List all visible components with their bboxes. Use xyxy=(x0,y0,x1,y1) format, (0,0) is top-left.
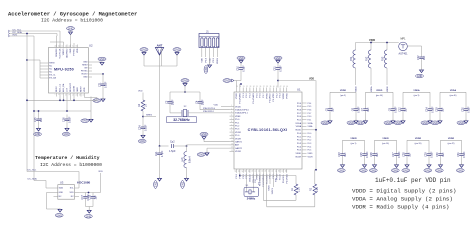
svg-text:1uF: 1uF xyxy=(442,152,445,157)
pin P0.5/SDA U1 xyxy=(286,169,288,173)
wire xyxy=(221,106,230,108)
svg-text:1.5pF: 1.5pF xyxy=(169,150,176,153)
wire xyxy=(26,34,28,172)
pin U2 right xyxy=(88,67,92,69)
wire xyxy=(186,146,188,152)
svg-text:FB3: FB3 xyxy=(382,56,385,61)
svg-text:GND: GND xyxy=(385,122,391,125)
capacitor C4 xyxy=(195,99,204,106)
wire xyxy=(85,202,87,206)
svg-text:P3.0/TDO: P3.0/TDO xyxy=(270,93,272,103)
pin U2 left xyxy=(45,77,49,79)
svg-text:38: 38 xyxy=(266,86,268,88)
label 32.768kHz xyxy=(167,117,197,123)
svg-text:2.2K: 2.2K xyxy=(316,187,319,192)
svg-text:GND: GND xyxy=(68,27,74,30)
svg-text:INT1: INT1 xyxy=(13,35,19,37)
wire xyxy=(240,74,242,80)
wire xyxy=(392,114,394,121)
svg-text:GND: GND xyxy=(174,49,180,52)
svg-text:FB2: FB2 xyxy=(366,56,369,61)
junction xyxy=(239,175,241,177)
svg-text:23: 23 xyxy=(59,45,61,47)
junction xyxy=(142,116,144,118)
wire xyxy=(402,92,404,105)
wire xyxy=(70,97,72,101)
svg-text:CYBL10161-56LQXI: CYBL10161-56LQXI xyxy=(248,128,288,132)
wire xyxy=(27,171,79,173)
svg-text:VSSD: VSSD xyxy=(236,93,238,99)
pin P3.5 U1 xyxy=(302,105,307,107)
wire xyxy=(234,80,237,82)
svg-text:VDDD: VDDD xyxy=(376,90,383,92)
svg-text:VDDR: VDDR xyxy=(235,138,241,140)
svg-text:VSSD: VSSD xyxy=(266,93,268,99)
crystal X1 xyxy=(244,185,259,200)
net VDDR decoupling group xyxy=(441,138,462,145)
wire xyxy=(374,140,376,150)
capacitor C23 xyxy=(338,150,347,159)
svg-text:VDDR: VDDR xyxy=(448,138,455,140)
junction xyxy=(73,99,75,101)
ground xyxy=(431,120,442,125)
svg-text:GND: GND xyxy=(458,169,464,172)
ground xyxy=(85,209,93,218)
svg-text:0.1uF: 0.1uF xyxy=(280,65,283,72)
svg-text:I2C_SCL: I2C_SCL xyxy=(28,169,38,171)
capacitor C21 xyxy=(98,74,107,96)
capacitor C30 xyxy=(436,150,445,159)
pin VSSD U1 xyxy=(302,152,307,154)
svg-text:GND: GND xyxy=(140,140,146,143)
antenna ANT xyxy=(155,43,163,55)
svg-text:VDDR: VDDR xyxy=(350,138,357,140)
ground xyxy=(232,79,235,82)
capacitor C24 xyxy=(138,124,147,133)
pin GANT1 U1 xyxy=(230,141,235,143)
svg-text:GND: GND xyxy=(57,214,63,217)
svg-text:VDD: VDD xyxy=(369,38,376,42)
ground xyxy=(173,48,181,55)
wire xyxy=(63,42,65,45)
svg-text:1uF: 1uF xyxy=(367,107,370,112)
mpu-9250 U2 xyxy=(49,44,94,94)
svg-text:Accelerometer / Gyroscope / Ma: Accelerometer / Gyroscope / Magnetometer xyxy=(8,12,137,18)
svg-text:0.1uF: 0.1uF xyxy=(145,124,148,131)
wire xyxy=(439,92,441,105)
wire VDD rail xyxy=(278,80,316,82)
svg-text:XTAL32I/P6.1: XTAL32I/P6.1 xyxy=(203,110,214,113)
svg-text:SWDCK: SWDCK xyxy=(272,187,274,194)
svg-text:35: 35 xyxy=(256,86,258,88)
ground xyxy=(138,134,146,143)
junction xyxy=(59,99,61,101)
svg-text:C29: C29 xyxy=(424,152,427,157)
pin P0.5 U1 xyxy=(302,149,307,151)
svg-text:0.1uF: 0.1uF xyxy=(468,106,471,113)
svg-text:GND: GND xyxy=(395,122,401,125)
pin P0.4/SCL U1 xyxy=(282,169,284,173)
pin GND U3 xyxy=(54,192,58,194)
wire xyxy=(92,61,102,63)
capacitor C14 xyxy=(425,105,434,114)
svg-text:0.1uF: 0.1uF xyxy=(395,106,398,113)
svg-text:P0.3: P0.3 xyxy=(308,143,312,145)
junction xyxy=(38,110,40,112)
svg-text:GND: GND xyxy=(348,122,354,125)
svg-text:ANT: ANT xyxy=(235,144,240,147)
svg-text:Cp2: Cp2 xyxy=(170,140,175,143)
pin VSSD U1 xyxy=(236,88,238,93)
svg-text:GND: GND xyxy=(35,133,41,136)
wire xyxy=(173,145,186,147)
wire xyxy=(38,111,40,115)
wire xyxy=(56,34,58,37)
ground xyxy=(62,127,70,136)
svg-text:(pin 16): (pin 16) xyxy=(382,143,389,145)
svg-text:10: 10 xyxy=(231,134,233,136)
pin nCS U2 xyxy=(66,93,68,97)
capacitor C7 xyxy=(361,105,370,114)
svg-text:13: 13 xyxy=(231,144,233,146)
svg-text:10: 10 xyxy=(66,94,68,96)
wire xyxy=(392,92,394,105)
svg-text:(pin 26): (pin 26) xyxy=(415,143,422,145)
wire xyxy=(406,140,408,150)
svg-text:42: 42 xyxy=(280,86,282,88)
svg-text:VDD: VDD xyxy=(69,192,74,194)
svg-text:GND: GND xyxy=(182,80,188,83)
svg-text:CLKIN: CLKIN xyxy=(74,85,76,92)
svg-text:C25: C25 xyxy=(360,152,363,157)
capacitor C25 xyxy=(360,150,369,159)
ground xyxy=(424,164,432,173)
svg-text:(pin 44): (pin 44) xyxy=(376,95,383,97)
svg-text:1uF: 1uF xyxy=(344,152,347,157)
junction xyxy=(186,145,188,147)
svg-text:C22: C22 xyxy=(417,55,420,60)
wire xyxy=(276,173,278,177)
svg-text:XTAL32O/P6.0: XTAL32O/P6.0 xyxy=(235,108,250,111)
junction xyxy=(159,145,161,147)
capacitor C27 xyxy=(392,150,401,159)
pin P3.7 U1 xyxy=(302,112,307,114)
svg-text:53: 53 xyxy=(262,170,264,172)
wire xyxy=(396,140,398,150)
svg-text:GND: GND xyxy=(358,122,364,125)
svg-text:RESV: RESV xyxy=(82,65,88,67)
wire xyxy=(246,173,248,188)
pin VDDD U1 xyxy=(282,88,284,93)
pin VDDR U1 xyxy=(302,156,307,158)
svg-text:GND: GND xyxy=(361,169,367,172)
pin AUX_DA U2 xyxy=(63,93,65,97)
svg-text:(pin 42): (pin 42) xyxy=(448,143,455,145)
wire xyxy=(329,92,331,105)
capacitor C29 xyxy=(424,150,433,159)
ground xyxy=(274,56,282,63)
wire xyxy=(38,125,40,128)
svg-text:1uF: 1uF xyxy=(40,117,43,122)
svg-text:30pF: 30pF xyxy=(172,99,175,105)
pin U2 right xyxy=(88,61,92,63)
svg-text:AUX_CL: AUX_CL xyxy=(59,83,62,92)
pin U2 left xyxy=(45,71,49,73)
wire xyxy=(209,57,211,65)
svg-text:VDDD: VDDD xyxy=(235,106,241,108)
net VDDA decoupling group xyxy=(440,89,466,97)
wire xyxy=(66,97,68,112)
net VDDR decoupling group xyxy=(407,138,429,145)
pin VREF U1 xyxy=(230,115,235,117)
svg-text:AUX_DA: AUX_DA xyxy=(62,83,65,92)
wire xyxy=(314,170,316,184)
svg-text:1uF: 1uF xyxy=(332,107,335,112)
pin GND U2 xyxy=(70,45,72,48)
pin VDDD U1 xyxy=(302,129,307,131)
junction xyxy=(26,99,28,101)
svg-text:P3.6: P3.6 xyxy=(308,109,312,111)
pin P0.4 J1 xyxy=(205,48,207,58)
svg-text:1uF: 1uF xyxy=(409,152,412,157)
svg-text:VSSD: VSSD xyxy=(286,93,288,99)
pin P3.4 U1 xyxy=(302,102,307,104)
pin P0.0 U1 xyxy=(302,132,307,134)
wire xyxy=(307,129,317,131)
pin XTAL32I/P6.1 U1 xyxy=(230,112,235,114)
wire xyxy=(364,159,366,165)
wire xyxy=(199,106,201,110)
capacitor C15 xyxy=(34,115,43,126)
wire xyxy=(170,91,200,93)
svg-text:P3.7: P3.7 xyxy=(308,113,312,115)
pin VCCD U1 xyxy=(279,169,281,173)
ground xyxy=(321,120,332,125)
wire xyxy=(66,125,68,128)
svg-text:GND: GND xyxy=(83,62,88,64)
svg-text:C28: C28 xyxy=(402,152,405,157)
capacitor Cp1 xyxy=(155,146,164,162)
pin P4.1 U1 xyxy=(302,119,307,121)
junction xyxy=(386,42,388,44)
junction xyxy=(240,83,242,85)
capacitor C12 xyxy=(398,105,407,114)
wire xyxy=(169,92,171,99)
net VDDD decoupling group xyxy=(330,90,356,97)
svg-text:0.1uF: 0.1uF xyxy=(432,106,435,113)
svg-text:C31: C31 xyxy=(457,152,460,157)
pin RESV U2 xyxy=(56,93,58,97)
pin SCL/SCLK U2 xyxy=(59,45,61,48)
wire xyxy=(374,159,376,165)
svg-text:GND: GND xyxy=(403,169,409,172)
svg-text:0.1uF: 0.1uF xyxy=(366,151,369,158)
wire xyxy=(73,97,75,101)
svg-text:GND: GND xyxy=(371,169,377,172)
svg-text:59: 59 xyxy=(282,170,284,172)
svg-text:44: 44 xyxy=(286,86,288,88)
svg-text:15: 15 xyxy=(83,94,85,96)
wire xyxy=(46,187,54,189)
wire xyxy=(27,59,40,61)
svg-text:GND: GND xyxy=(83,77,88,79)
svg-text:C24: C24 xyxy=(138,125,141,130)
svg-text:(pin 40): (pin 40) xyxy=(450,95,457,97)
psoc CYBL10161-56LQXI U1 xyxy=(234,88,302,169)
capacitor C28 xyxy=(402,150,411,159)
pin RESV U2 xyxy=(80,93,82,97)
svg-text:Lp3: Lp3 xyxy=(181,157,184,162)
svg-text:GND: GND xyxy=(393,169,399,172)
svg-text:14: 14 xyxy=(231,147,233,149)
svg-text:0.1uF: 0.1uF xyxy=(463,151,466,158)
svg-text:C19: C19 xyxy=(435,107,438,112)
wire xyxy=(59,31,61,48)
pin P5.2 U1 xyxy=(230,125,235,127)
ground xyxy=(154,177,162,188)
pin P3.1/TDI U1 xyxy=(272,88,274,93)
svg-text:30pF: 30pF xyxy=(202,99,205,105)
svg-text:U1: U1 xyxy=(297,88,301,92)
svg-text:P2.4/SAR1: P2.4/SAR1 xyxy=(252,92,255,103)
wire xyxy=(259,173,261,181)
svg-text:P0.4/SCL: P0.4/SCL xyxy=(283,173,285,183)
svg-text:SWDIO: SWDIO xyxy=(269,184,271,190)
svg-text:XTAL32I/P6.1: XTAL32I/P6.1 xyxy=(235,112,249,115)
svg-text:AD0/SDO: AD0/SDO xyxy=(66,48,69,58)
pin P1.0 U1 xyxy=(236,169,238,173)
pin P2.3 U1 xyxy=(249,88,251,93)
wire xyxy=(329,114,331,121)
svg-text:VDDA: VDDA xyxy=(450,89,457,92)
pin U2 right xyxy=(88,70,92,72)
svg-text:1K: 1K xyxy=(144,104,147,107)
svg-text:VDDR: VDDR xyxy=(415,138,422,140)
svg-text:48: 48 xyxy=(245,170,247,172)
ferrite bead FB3 xyxy=(382,50,387,68)
svg-text:6.8nH: 6.8nH xyxy=(188,156,191,163)
pin P3.2 U1 xyxy=(276,88,278,93)
pin P2.5 U1 xyxy=(256,88,258,93)
svg-text:VSSA: VSSA xyxy=(296,125,302,128)
capacitor C5 xyxy=(325,105,334,114)
svg-text:GND: GND xyxy=(59,192,64,194)
wire xyxy=(10,33,57,35)
node I2C_SDA xyxy=(8,33,10,35)
wire xyxy=(342,140,344,150)
svg-text:GND: GND xyxy=(201,133,207,136)
pin P2.1 U1 xyxy=(242,88,244,93)
pin FSYNC U2 xyxy=(73,45,75,48)
svg-text:FSYNC: FSYNC xyxy=(74,48,76,56)
svg-text:VDDR: VDDR xyxy=(235,132,241,134)
wire xyxy=(461,140,463,150)
pin XRES J1 xyxy=(216,48,218,58)
svg-text:P2.0/SAR0: P2.0/SAR0 xyxy=(239,92,242,103)
svg-text:C30: C30 xyxy=(436,152,439,157)
svg-text:1uF: 1uF xyxy=(405,107,408,112)
pin VDD U2 xyxy=(84,93,86,97)
svg-text:MP1: MP1 xyxy=(401,38,407,41)
pin XTAL24O U1 xyxy=(252,169,254,173)
wire xyxy=(207,147,230,149)
wire xyxy=(440,140,442,150)
svg-text:0.1uF: 0.1uF xyxy=(105,81,108,88)
pin P1.2 U1 xyxy=(242,169,244,173)
pin P3.0/TDO U1 xyxy=(269,88,271,93)
junction xyxy=(88,192,90,194)
pin P1.0 U1 xyxy=(230,134,235,136)
svg-text:2.2K: 2.2K xyxy=(297,187,300,192)
svg-text:GANT1: GANT1 xyxy=(235,140,243,143)
ground xyxy=(93,98,105,103)
svg-text:VDDR: VDDR xyxy=(387,86,389,92)
wire xyxy=(10,35,34,37)
svg-text:XRES: XRES xyxy=(217,57,219,63)
pin U2 right xyxy=(88,76,92,78)
svg-text:(pin 1): (pin 1) xyxy=(351,143,357,145)
pin P1.5/SWDCK U1 xyxy=(262,169,264,173)
svg-text:P3.1/TDI: P3.1/TDI xyxy=(273,93,275,102)
svg-text:37: 37 xyxy=(263,86,265,88)
svg-text:VDDA: VDDA xyxy=(295,122,301,125)
svg-text:GND: GND xyxy=(458,122,464,125)
pin NC U3 xyxy=(75,196,80,198)
capacitor Cp2 xyxy=(169,140,176,153)
svg-text:12: 12 xyxy=(73,94,75,96)
wire xyxy=(421,46,423,53)
pin ANT U1 xyxy=(230,144,235,146)
pin P1.1 U1 xyxy=(239,169,241,173)
pin U2 left xyxy=(45,74,49,76)
svg-text:U3: U3 xyxy=(60,181,64,185)
ground xyxy=(140,48,148,55)
ground xyxy=(357,120,368,125)
wire xyxy=(364,140,366,150)
pin VSSD U1 xyxy=(266,88,268,93)
wire xyxy=(355,68,357,85)
wire xyxy=(161,48,163,66)
svg-text:(pin 5): (pin 5) xyxy=(340,95,346,97)
svg-text:C20: C20 xyxy=(461,107,464,112)
wire xyxy=(355,43,357,51)
svg-text:32: 32 xyxy=(246,86,248,88)
svg-text:VDDD: VDDD xyxy=(283,93,285,99)
wire xyxy=(370,43,372,51)
wire xyxy=(73,43,75,45)
wire xyxy=(365,114,367,121)
ground xyxy=(55,208,63,217)
wire xyxy=(465,114,467,121)
ground xyxy=(237,56,245,63)
svg-text:VDDR: VDDR xyxy=(382,138,389,140)
svg-text:RESV: RESV xyxy=(56,86,58,92)
ground xyxy=(402,164,410,173)
svg-text:GND: GND xyxy=(70,48,72,53)
svg-text:GND: GND xyxy=(82,120,88,123)
svg-text:GANT2: GANT2 xyxy=(235,147,243,150)
svg-text:VDDIO: VDDIO xyxy=(63,48,65,55)
pin SCL U3 xyxy=(75,187,80,189)
wire xyxy=(277,74,279,87)
wire xyxy=(314,195,316,207)
svg-text:40: 40 xyxy=(273,86,275,88)
pin P2.7 U1 xyxy=(262,88,264,93)
svg-text:VDD: VDD xyxy=(98,171,103,173)
svg-text:GND: GND xyxy=(99,58,105,61)
svg-text:47: 47 xyxy=(242,170,244,172)
ground xyxy=(457,120,468,125)
